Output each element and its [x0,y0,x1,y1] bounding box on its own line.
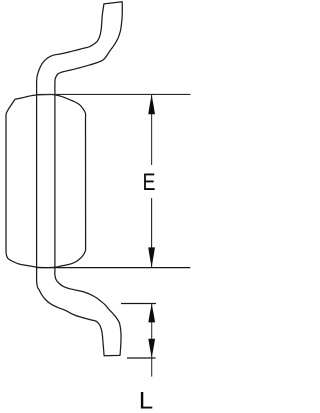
extension line L upper [121,303,156,305]
extension line L lower [127,357,156,359]
dimension line L [151,304,153,377]
dimension line E upper segment [151,95,153,165]
svg-text:E: E [142,168,155,196]
arrowhead L up [148,304,155,323]
arrowhead E down [148,247,155,267]
lead [37,2,123,356]
extension line top (E) [37,93,191,95]
dimension line E lower segment [151,198,153,267]
arrowhead L down [148,339,155,358]
svg-text:L: L [139,387,153,413]
extension line bottom (E) [37,267,190,269]
arrowhead E up [148,95,155,115]
package body [6,95,86,268]
